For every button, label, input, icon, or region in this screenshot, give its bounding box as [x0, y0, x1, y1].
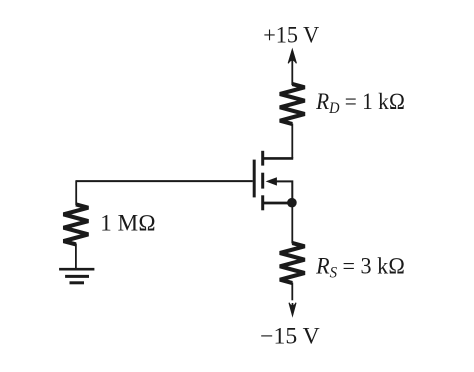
svg-text:−15 V: −15 V: [260, 323, 320, 348]
svg-text:+15 V: +15 V: [263, 22, 319, 47]
svg-text:RS = 3 kΩ: RS = 3 kΩ: [315, 253, 405, 281]
svg-text:1 MΩ: 1 MΩ: [100, 211, 156, 236]
svg-text:RD = 1 kΩ: RD = 1 kΩ: [315, 89, 405, 117]
